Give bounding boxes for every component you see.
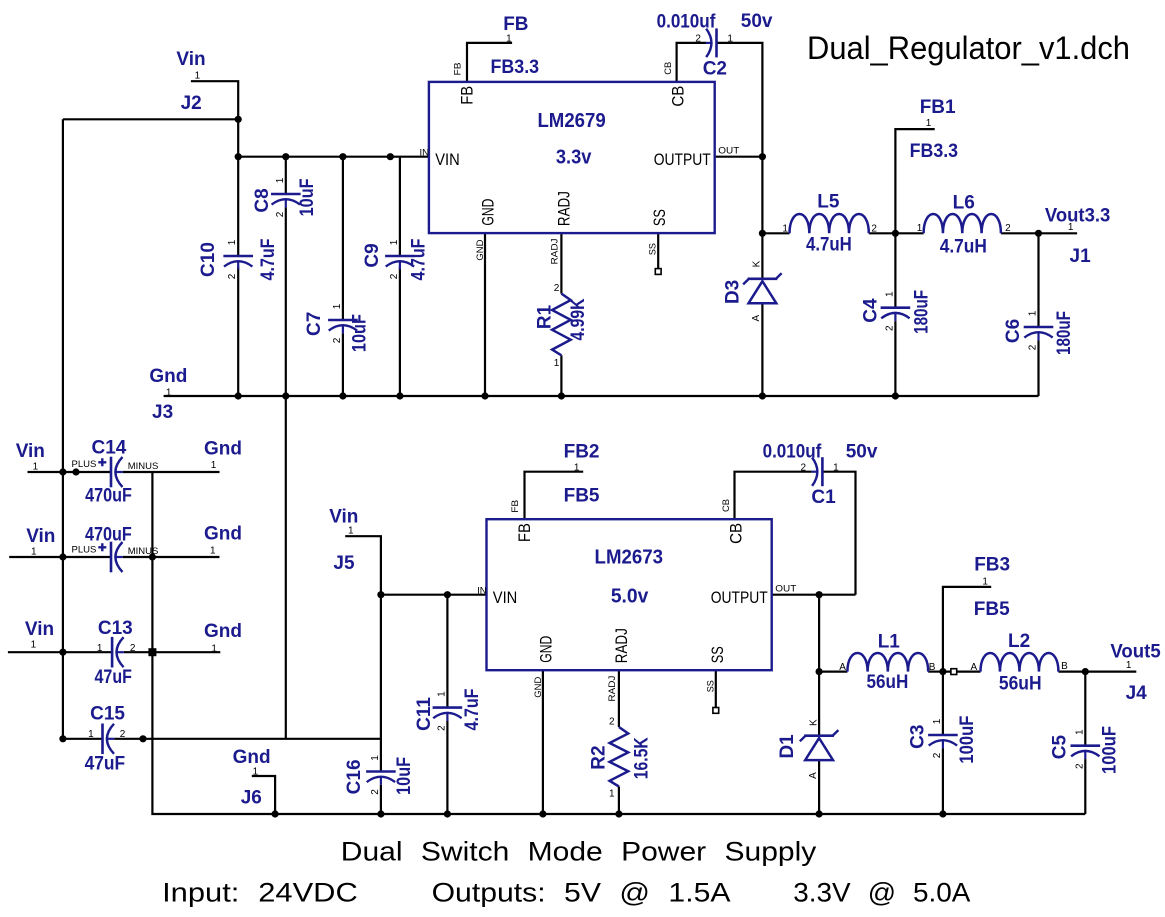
svg-text:4.99K: 4.99K — [568, 298, 589, 340]
svg-text:1: 1 — [227, 239, 238, 245]
svg-text:1: 1 — [211, 460, 217, 471]
svg-text:1: 1 — [370, 755, 381, 761]
svg-text:FB: FB — [452, 63, 463, 76]
svg-text:K: K — [808, 719, 819, 726]
svg-text:Vout3.3: Vout3.3 — [1045, 205, 1110, 226]
svg-text:SS: SS — [650, 209, 669, 226]
svg-text:A: A — [970, 662, 977, 673]
svg-text:C10: C10 — [198, 242, 219, 277]
svg-text:FB1: FB1 — [920, 97, 956, 118]
svg-text:Input: 24VDC: Input: 24VDC — [162, 878, 358, 908]
svg-text:16.5K: 16.5K — [632, 737, 653, 779]
svg-text:1: 1 — [833, 462, 839, 473]
svg-text:C11: C11 — [414, 697, 435, 731]
svg-text:1: 1 — [917, 223, 923, 234]
svg-text:C3: C3 — [908, 725, 929, 749]
svg-text:1: 1 — [348, 526, 354, 537]
svg-text:0.010uf: 0.010uf — [657, 12, 716, 33]
svg-text:56uH: 56uH — [867, 672, 909, 693]
svg-text:2: 2 — [332, 337, 343, 343]
svg-text:LM2679: LM2679 — [537, 110, 605, 132]
svg-text:C13: C13 — [98, 618, 133, 639]
svg-text:MINUS: MINUS — [128, 461, 159, 472]
svg-text:L5: L5 — [817, 191, 840, 212]
svg-text:CB: CB — [726, 523, 745, 544]
svg-text:VIN: VIN — [435, 150, 460, 169]
svg-text:J5: J5 — [333, 553, 355, 574]
svg-text:1: 1 — [1074, 729, 1085, 735]
svg-text:1: 1 — [88, 729, 94, 740]
svg-text:10uF: 10uF — [297, 178, 318, 216]
svg-text:100uF: 100uF — [957, 716, 978, 764]
svg-text:2: 2 — [275, 211, 286, 217]
svg-text:PLUS: PLUS — [72, 544, 97, 555]
svg-text:C9: C9 — [362, 243, 383, 267]
svg-text:1: 1 — [554, 358, 560, 369]
svg-text:R1: R1 — [535, 304, 556, 329]
svg-text:1: 1 — [926, 118, 932, 129]
svg-text:Vin: Vin — [176, 49, 205, 70]
svg-text:2: 2 — [436, 725, 447, 731]
svg-text:1: 1 — [195, 70, 201, 81]
svg-text:47uF: 47uF — [85, 754, 126, 775]
svg-text:1: 1 — [609, 788, 615, 799]
svg-text:1: 1 — [97, 643, 103, 654]
svg-text:J3: J3 — [152, 402, 173, 423]
svg-text:GND: GND — [536, 636, 555, 663]
svg-text:1: 1 — [31, 640, 37, 651]
svg-text:FB2: FB2 — [564, 442, 600, 463]
svg-text:1: 1 — [727, 34, 733, 45]
svg-text:J6: J6 — [241, 787, 262, 808]
svg-text:470uF: 470uF — [85, 485, 132, 506]
svg-text:C15: C15 — [90, 703, 125, 724]
svg-text:FB: FB — [515, 523, 534, 542]
svg-text:SS: SS — [648, 243, 659, 255]
svg-text:47uF: 47uF — [95, 667, 132, 688]
svg-text:B: B — [929, 662, 936, 673]
svg-text:Gnd: Gnd — [204, 439, 242, 460]
svg-text:1: 1 — [884, 291, 895, 297]
svg-text:Vin: Vin — [329, 507, 358, 528]
svg-text:J1: J1 — [1070, 246, 1092, 267]
svg-text:IN: IN — [420, 148, 430, 159]
svg-text:1: 1 — [166, 388, 172, 399]
svg-text:5.0v: 5.0v — [611, 586, 649, 608]
svg-text:2: 2 — [609, 716, 615, 727]
svg-text:1: 1 — [31, 547, 37, 558]
svg-text:2: 2 — [554, 283, 560, 294]
svg-text:1: 1 — [1068, 222, 1074, 233]
svg-text:MINUS: MINUS — [128, 546, 159, 557]
svg-text:L1: L1 — [878, 631, 901, 652]
svg-text:4.7uF: 4.7uF — [258, 239, 279, 281]
svg-text:IN: IN — [477, 586, 487, 597]
svg-text:2: 2 — [1005, 223, 1011, 234]
svg-text:C2: C2 — [703, 58, 727, 79]
svg-text:2: 2 — [884, 325, 895, 331]
svg-text:J2: J2 — [181, 93, 202, 114]
svg-text:OUTPUT: OUTPUT — [711, 588, 768, 607]
svg-text:RADJ: RADJ — [549, 238, 560, 264]
svg-text:FB3.3: FB3.3 — [491, 57, 540, 78]
svg-text:GND: GND — [479, 199, 498, 226]
svg-text:C6: C6 — [1003, 319, 1024, 343]
svg-text:C14: C14 — [92, 437, 127, 458]
svg-text:50v: 50v — [741, 11, 773, 32]
svg-text:LM2673: LM2673 — [595, 547, 664, 569]
svg-text:Vin: Vin — [26, 526, 55, 547]
svg-text:1: 1 — [33, 462, 39, 473]
svg-text:FB: FB — [457, 86, 476, 105]
svg-text:1: 1 — [782, 224, 788, 235]
svg-text:180uF: 180uF — [912, 290, 933, 334]
svg-text:SS: SS — [708, 646, 727, 663]
svg-text:Dual_Regulator_v1.dch: Dual_Regulator_v1.dch — [807, 30, 1130, 66]
svg-text:1: 1 — [253, 766, 259, 777]
svg-text:2: 2 — [389, 273, 400, 279]
svg-text:J4: J4 — [1126, 683, 1148, 704]
svg-text:1: 1 — [332, 303, 343, 309]
svg-text:2: 2 — [871, 223, 877, 234]
svg-text:2: 2 — [801, 462, 807, 473]
svg-text:1: 1 — [389, 239, 400, 245]
svg-text:Gnd: Gnd — [204, 621, 242, 642]
svg-text:4.7uH: 4.7uH — [806, 235, 852, 256]
svg-text:4.7uH: 4.7uH — [940, 236, 987, 257]
svg-text:CB: CB — [663, 62, 674, 75]
svg-text:Gnd: Gnd — [204, 524, 242, 545]
svg-text:1: 1 — [210, 546, 216, 557]
svg-text:FB: FB — [510, 500, 521, 513]
svg-text:GND: GND — [475, 239, 486, 260]
svg-text:C8: C8 — [252, 188, 273, 212]
svg-text:RADJ: RADJ — [612, 628, 631, 663]
svg-text:CB: CB — [721, 499, 732, 512]
svg-text:2: 2 — [370, 789, 381, 795]
svg-text:3.3V @ 5.0A: 3.3V @ 5.0A — [793, 878, 970, 908]
svg-text:A: A — [751, 314, 762, 321]
svg-text:2: 2 — [120, 729, 126, 740]
svg-text:CB: CB — [668, 86, 687, 107]
svg-text:Dual Switch Mode Power Supply: Dual Switch Mode Power Supply — [341, 837, 817, 867]
svg-text:1: 1 — [275, 177, 286, 183]
svg-text:Vin: Vin — [25, 619, 54, 640]
svg-text:2: 2 — [1074, 763, 1085, 769]
svg-text:FB: FB — [503, 14, 528, 35]
svg-text:GND: GND — [533, 677, 544, 698]
svg-text:OUT: OUT — [718, 146, 739, 157]
svg-text:100uF: 100uF — [1100, 726, 1121, 774]
svg-text:PLUS: PLUS — [72, 459, 97, 470]
svg-text:D1: D1 — [777, 734, 798, 759]
svg-text:1: 1 — [982, 576, 988, 587]
svg-text:1: 1 — [574, 462, 580, 473]
svg-text:OUT: OUT — [775, 584, 796, 595]
svg-text:Gnd: Gnd — [233, 747, 271, 768]
svg-text:1: 1 — [932, 718, 943, 724]
svg-text:Gnd: Gnd — [149, 366, 187, 387]
svg-text:R2: R2 — [589, 745, 610, 769]
svg-text:K: K — [752, 260, 763, 267]
svg-text:470uF: 470uF — [85, 524, 132, 545]
svg-text:VIN: VIN — [493, 588, 518, 607]
svg-text:L6: L6 — [953, 192, 975, 213]
svg-text:RADJ: RADJ — [607, 675, 618, 701]
svg-text:SS: SS — [705, 680, 716, 692]
svg-text:FB3.3: FB3.3 — [910, 141, 959, 162]
svg-text:2: 2 — [932, 752, 943, 758]
svg-text:Vin: Vin — [16, 441, 45, 462]
svg-text:FB5: FB5 — [564, 486, 600, 507]
svg-text:4.7uF: 4.7uF — [409, 239, 430, 281]
svg-text:A: A — [808, 772, 819, 779]
svg-text:1: 1 — [436, 691, 447, 697]
svg-text:D3: D3 — [723, 280, 744, 304]
svg-text:L2: L2 — [1008, 631, 1030, 652]
svg-text:FB5: FB5 — [974, 599, 1010, 620]
svg-text:1: 1 — [211, 643, 217, 654]
svg-text:B: B — [1061, 661, 1068, 672]
svg-text:4.7uF: 4.7uF — [462, 689, 483, 731]
svg-text:3.3v: 3.3v — [556, 146, 592, 168]
svg-text:56uH: 56uH — [999, 674, 1042, 695]
svg-text:C1: C1 — [811, 487, 836, 508]
svg-text:10uF: 10uF — [350, 314, 371, 352]
svg-text:2: 2 — [695, 34, 701, 45]
svg-text:2: 2 — [1028, 344, 1039, 350]
svg-text:2: 2 — [227, 273, 238, 279]
svg-text:FB3: FB3 — [974, 555, 1010, 576]
svg-text:RADJ: RADJ — [554, 191, 573, 226]
svg-text:C16: C16 — [344, 759, 365, 794]
svg-text:Outputs: 5V @ 1.5A: Outputs: 5V @ 1.5A — [432, 878, 731, 908]
svg-text:A: A — [839, 662, 846, 673]
svg-text:C4: C4 — [861, 298, 882, 323]
svg-text:180uF: 180uF — [1054, 311, 1075, 355]
svg-text:10uF: 10uF — [394, 757, 415, 795]
svg-text:2: 2 — [130, 643, 136, 654]
svg-text:1: 1 — [1126, 660, 1132, 671]
svg-text:0.010uf: 0.010uf — [763, 442, 822, 463]
svg-text:C5: C5 — [1050, 735, 1071, 760]
svg-text:Vout5: Vout5 — [1110, 642, 1161, 663]
svg-text:1: 1 — [1028, 310, 1039, 316]
svg-text:OUTPUT: OUTPUT — [654, 150, 711, 169]
svg-text:1: 1 — [506, 34, 512, 45]
svg-text:C7: C7 — [304, 312, 325, 336]
svg-text:50v: 50v — [846, 442, 878, 463]
